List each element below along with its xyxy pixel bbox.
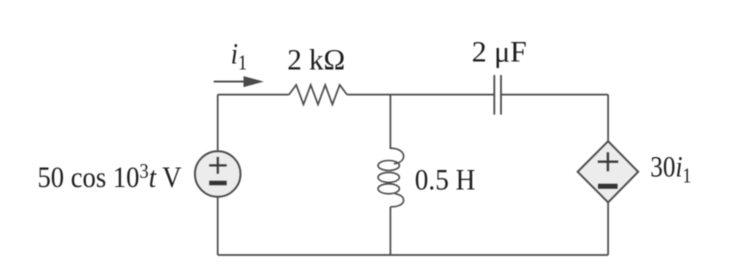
plus sign in circle [209, 157, 227, 174]
wire right vertical upper [607, 95, 609, 142]
svg-text:2 kΩ: 2 kΩ [287, 43, 345, 76]
svg-text:2 μF: 2 μF [472, 35, 527, 68]
minus sign in diamond [598, 184, 618, 189]
minus sign in circle [209, 181, 227, 185]
wire capacitor to top-right corner [501, 94, 608, 96]
inductor bottom hook [390, 194, 403, 207]
wire left vertical upper [217, 95, 219, 153]
svg-text:50 cos 103t V: 50 cos 103t V [38, 159, 182, 194]
svg-text:0.5 H: 0.5 H [415, 163, 476, 196]
wire middle vertical lower [389, 207, 391, 255]
wire middle vertical upper [389, 95, 391, 149]
inductor loop 2 [378, 172, 399, 182]
wire right vertical lower [607, 202, 609, 255]
voltage source V1 circle [195, 151, 241, 197]
current arrow i1 head [244, 76, 264, 87]
resistor R 2 kOhm zigzag [289, 85, 347, 105]
capacitor C 2uF plates [494, 75, 501, 115]
inductor loop 3 [378, 184, 399, 194]
wire left vertical lower [217, 196, 219, 255]
wire top-left segment [218, 94, 289, 96]
wire resistor to capacitor [347, 94, 494, 96]
wire bottom [218, 254, 608, 256]
dependent source U1 diamond 30i1 [578, 141, 639, 202]
current arrow i1 shaft [214, 81, 246, 83]
inductor L 0.5H top hook [390, 148, 403, 164]
inductor loop 1 [378, 161, 399, 171]
plus sign in diamond [598, 152, 618, 171]
